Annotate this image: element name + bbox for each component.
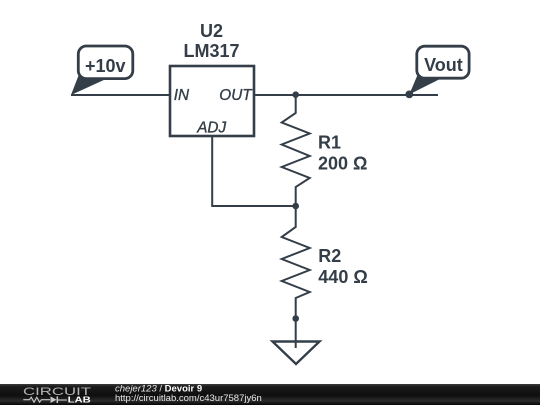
pin label ADJ	[196, 119, 226, 136]
svg-text:R1: R1	[318, 133, 341, 153]
resistor R2	[282, 206, 310, 319]
svg-text:IN: IN	[174, 87, 190, 104]
designator R1	[318, 133, 341, 153]
svg-text:200 Ω: 200 Ω	[318, 154, 367, 174]
wire: node to ground	[295, 319, 297, 349]
svg-text:+10v: +10v	[85, 56, 126, 76]
junction node: R2 / ground	[292, 315, 299, 322]
footer credit line	[115, 384, 202, 395]
junction node: OUT / R1	[292, 91, 299, 98]
svg-text:http://circuitlab.com/c43ur758: http://circuitlab.com/c43ur7587jy6n	[115, 393, 262, 404]
ground symbol	[273, 342, 320, 365]
svg-text:ADJ: ADJ	[196, 119, 226, 136]
net flag +10v	[71, 46, 133, 95]
svg-text:440 Ω: 440 Ω	[318, 267, 367, 287]
svg-text:U2: U2	[200, 21, 223, 41]
net flag Vout	[405, 46, 469, 98]
svg-text:R2: R2	[318, 246, 341, 266]
svg-text:LAB: LAB	[68, 396, 91, 405]
svg-text:OUT: OUT	[219, 87, 253, 104]
resistor R1	[282, 95, 310, 206]
junction node: R1 / R2 / ADJ	[292, 203, 299, 210]
wire: OUT pin to Vout net	[254, 94, 438, 96]
footer logo CIRCUIT	[23, 386, 91, 398]
footer logo LAB	[68, 396, 91, 405]
footer url line	[115, 393, 262, 404]
svg-text:LM317: LM317	[183, 41, 239, 61]
wire: +10v net to IN pin	[71, 94, 170, 96]
value label 200 &#937;	[318, 154, 367, 174]
designator R2	[318, 246, 341, 266]
designator U2	[200, 21, 223, 41]
svg-text:Vout: Vout	[424, 55, 463, 75]
footer logo resistor-diode symbol	[23, 396, 67, 403]
footer bar	[0, 384, 540, 405]
voltage regulator U2 (LM317) body	[170, 66, 254, 136]
pin label IN	[174, 87, 190, 104]
value label 440 &#937;	[318, 267, 367, 287]
value label LM317	[183, 41, 239, 61]
pin label OUT	[219, 87, 253, 104]
wire: ADJ pin to divider node	[212, 136, 296, 206]
